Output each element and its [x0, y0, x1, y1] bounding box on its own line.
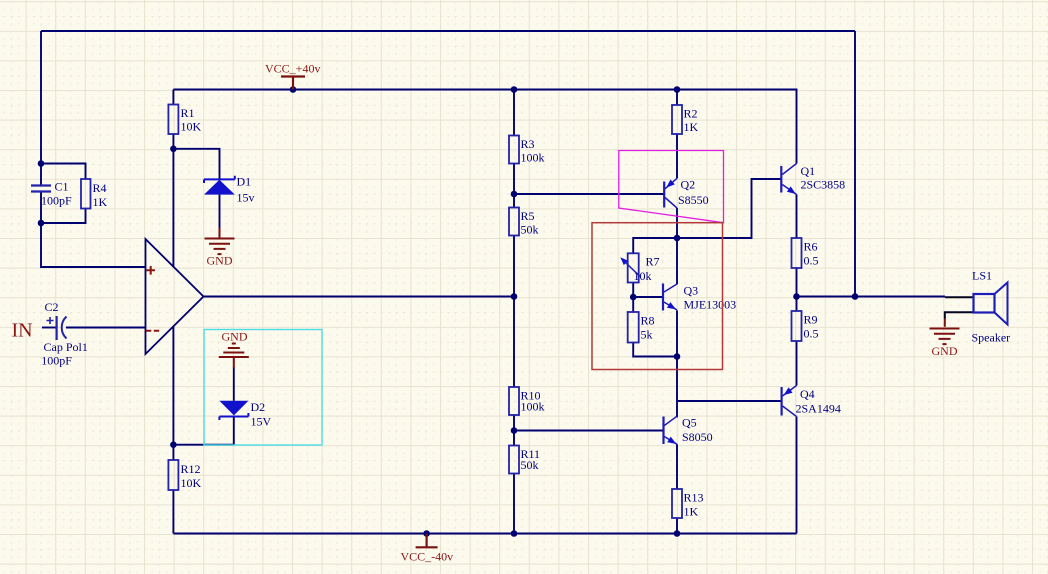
transistor Q4 (PNP 2SA1494) — [780, 387, 782, 416]
wire D2 anode — [233, 416, 235, 445]
wire Q4 collector down — [796, 417, 798, 534]
wire mid column seg2 — [513, 164, 515, 208]
svg-text:Q3: Q3 — [684, 284, 699, 298]
svg-text:S8550: S8550 — [678, 193, 709, 207]
svg-text:100k: 100k — [521, 151, 545, 165]
svg-text:R3: R3 — [521, 137, 535, 151]
svg-text:R5: R5 — [521, 209, 535, 223]
node R1-D1 junction — [170, 146, 177, 153]
wire R2 top link — [676, 90, 678, 106]
wire R9 to Q4 emitter — [796, 341, 798, 386]
svg-text:50k: 50k — [521, 458, 539, 472]
svg-text:R1: R1 — [181, 106, 195, 120]
wire output to speaker — [797, 296, 946, 298]
wire node356 down — [676, 357, 678, 418]
wire Q3 base — [633, 296, 663, 298]
node mid bottom — [511, 530, 518, 537]
wire left column to R12 — [172, 326, 174, 460]
svg-text:2SA1494: 2SA1494 — [796, 402, 841, 416]
svg-text:R2: R2 — [684, 107, 698, 121]
svg-text:100k: 100k — [521, 400, 545, 414]
wire Q3 emitter down — [676, 311, 678, 357]
svg-text:GND: GND — [222, 330, 248, 344]
svg-text:1K: 1K — [684, 505, 699, 519]
svg-text:IN: IN — [12, 320, 33, 342]
resistor R8 — [628, 312, 639, 343]
svg-text:10K: 10K — [181, 120, 202, 134]
svg-text:C1: C1 — [55, 180, 69, 194]
svg-text:1K: 1K — [93, 195, 108, 209]
resistor R1 — [168, 105, 178, 135]
wire D1 link — [173, 149, 219, 180]
resistor R3 — [509, 136, 519, 164]
red highlight box around R7 R8 Q3 — [592, 223, 723, 370]
svg-text:VCC_-40v: VCC_-40v — [401, 550, 454, 564]
node R2 top — [674, 86, 681, 93]
svg-text:R4: R4 — [93, 181, 107, 195]
ground symbol at speaker — [930, 329, 960, 345]
wire Q2 collector down — [676, 208, 678, 238]
wire D1 anode to ground — [219, 195, 221, 228]
wire Q4 base — [677, 400, 782, 402]
resistor R7 (adjustable) — [628, 253, 639, 282]
wire IN to C2 — [42, 327, 57, 329]
wire D2 cathode to GND — [233, 368, 235, 401]
svg-text:2SC3858: 2SC3858 — [801, 178, 846, 192]
capacitor C2 (polarized) — [55, 316, 57, 340]
svg-text:Q4: Q4 — [800, 387, 815, 401]
resistor R2 — [672, 105, 682, 134]
zener diode D1 — [204, 180, 235, 195]
capacitor C1 — [31, 186, 51, 192]
speaker pin 1 — [945, 296, 974, 298]
node R3-R5 — [511, 191, 518, 198]
node C1 top — [38, 160, 45, 167]
wire bottom rail — [173, 533, 796, 535]
node output R6-R9 — [793, 293, 800, 300]
wire left column lower to op-amp + — [41, 192, 146, 268]
resistor R4 — [81, 179, 91, 209]
wire top feedback rail — [41, 30, 855, 32]
svg-text:S8050: S8050 — [682, 430, 713, 444]
ground symbol near D1 — [219, 228, 221, 239]
svg-text:R8: R8 — [641, 314, 655, 328]
resistor R12 — [168, 460, 178, 490]
transistor Q1 (NPN 2SC3858) — [780, 166, 782, 193]
resistor R6 — [792, 238, 802, 268]
wire R12 bottom — [172, 490, 174, 534]
node feedback tap — [852, 293, 859, 300]
wire Q5 emitter down — [676, 444, 678, 489]
resistor R5 — [509, 208, 519, 236]
svg-text:MJE13003: MJE13003 — [684, 298, 737, 312]
svg-text:R9: R9 — [804, 313, 818, 327]
wire speaker ground stem — [944, 319, 946, 327]
svg-text:Cap Pol1: Cap Pol1 — [44, 340, 88, 354]
svg-text:C2: C2 — [45, 300, 59, 314]
svg-text:GND: GND — [207, 254, 233, 268]
wire Q1 emitter down — [796, 194, 798, 238]
svg-text:15V: 15V — [251, 415, 272, 429]
loudspeaker LS1 — [974, 294, 995, 313]
wire R4 bottom link — [41, 209, 86, 224]
wire R7 bottom — [632, 283, 634, 313]
svg-text:Q2: Q2 — [681, 178, 696, 192]
ground symbol above D2 (inverted) — [219, 344, 249, 358]
node VCC -40 symbol — [423, 530, 430, 537]
zener diode D2 — [219, 401, 248, 416]
wire right feedback drop — [854, 31, 856, 297]
svg-text:R12: R12 — [181, 462, 201, 476]
svg-text:GND: GND — [932, 344, 958, 358]
node R12-D2 junction — [170, 441, 177, 448]
node R10-R11 — [511, 427, 518, 434]
node op-amp out — [511, 293, 518, 300]
wire mid column seg1 — [513, 90, 515, 136]
node Q2-Q3 — [674, 235, 681, 242]
svg-text:100pF: 100pF — [41, 354, 72, 368]
resistor R11 — [509, 446, 519, 474]
svg-text:D2: D2 — [251, 400, 266, 414]
svg-text:D1: D1 — [237, 175, 252, 189]
wire node238 to Q1 base — [677, 179, 781, 238]
magenta highlight box around Q2 — [619, 151, 724, 223]
wire mid column seg3 — [513, 236, 515, 388]
node R7-R8 — [630, 294, 637, 301]
wire D2 link — [173, 444, 233, 446]
svg-text:50k: 50k — [521, 223, 539, 237]
svg-text:Q5: Q5 — [682, 416, 697, 430]
wire R4 top link — [41, 164, 86, 180]
svg-text:10k: 10k — [634, 269, 652, 283]
wire C2 to op-amp - — [66, 327, 146, 329]
svg-text:0.5: 0.5 — [804, 327, 819, 341]
svg-text:R13: R13 — [684, 491, 704, 505]
wire Q2 base — [514, 193, 664, 195]
node C1 bottom — [38, 220, 45, 227]
wire R1 top — [172, 90, 174, 105]
resistor R10 — [509, 387, 519, 415]
wire node238 to R7 — [633, 238, 677, 253]
resistor R13 — [672, 489, 682, 518]
svg-text:15v: 15v — [237, 191, 255, 205]
svg-text:Speaker: Speaker — [972, 331, 1011, 345]
svg-text:0.5: 0.5 — [804, 254, 819, 268]
power VCC_+40v symbol — [281, 77, 305, 90]
cyan highlight box around D2 — [204, 330, 322, 446]
wire R13 bottom — [676, 518, 678, 534]
power VCC_-40v symbol — [416, 534, 438, 548]
resistor R9 — [792, 311, 802, 341]
wire R8 bottom link — [633, 343, 677, 357]
svg-text:5k: 5k — [641, 328, 653, 342]
node mid top — [511, 86, 518, 93]
wire R6 to R9 — [796, 268, 798, 311]
wire Q5 base — [514, 430, 664, 432]
wire left column upper — [40, 31, 42, 186]
node VCC symbol — [290, 86, 297, 93]
svg-text:100pF: 100pF — [41, 194, 72, 208]
svg-text:R7: R7 — [646, 255, 660, 269]
svg-text:LS1: LS1 — [972, 269, 992, 283]
op-amp U1 — [146, 239, 204, 354]
svg-text:Q1: Q1 — [801, 164, 816, 178]
node R13 bottom rail — [674, 530, 681, 537]
node Q3 emitter — [674, 353, 681, 360]
wire mid column seg5 — [513, 474, 515, 534]
svg-text:1K: 1K — [684, 120, 699, 134]
transistor Q3 (NPN MJE13003) — [662, 284, 664, 311]
wire mid column seg4 — [513, 415, 515, 446]
wire R1 bottom to op-amp — [172, 134, 174, 267]
svg-text:10K: 10K — [181, 476, 202, 490]
transistor Q2 (PNP S8550) — [663, 182, 665, 208]
svg-text:R6: R6 — [804, 240, 818, 254]
wire R2 to Q2 emitter — [676, 134, 678, 178]
speaker pin 2 — [945, 312, 974, 318]
wire Q3 collector up — [676, 238, 678, 284]
svg-text:VCC_+40v: VCC_+40v — [265, 62, 320, 76]
wire VCC +40 rail — [173, 90, 796, 164]
wire op-amp output — [204, 296, 515, 298]
transistor Q5 (NPN S8050) — [662, 417, 664, 445]
